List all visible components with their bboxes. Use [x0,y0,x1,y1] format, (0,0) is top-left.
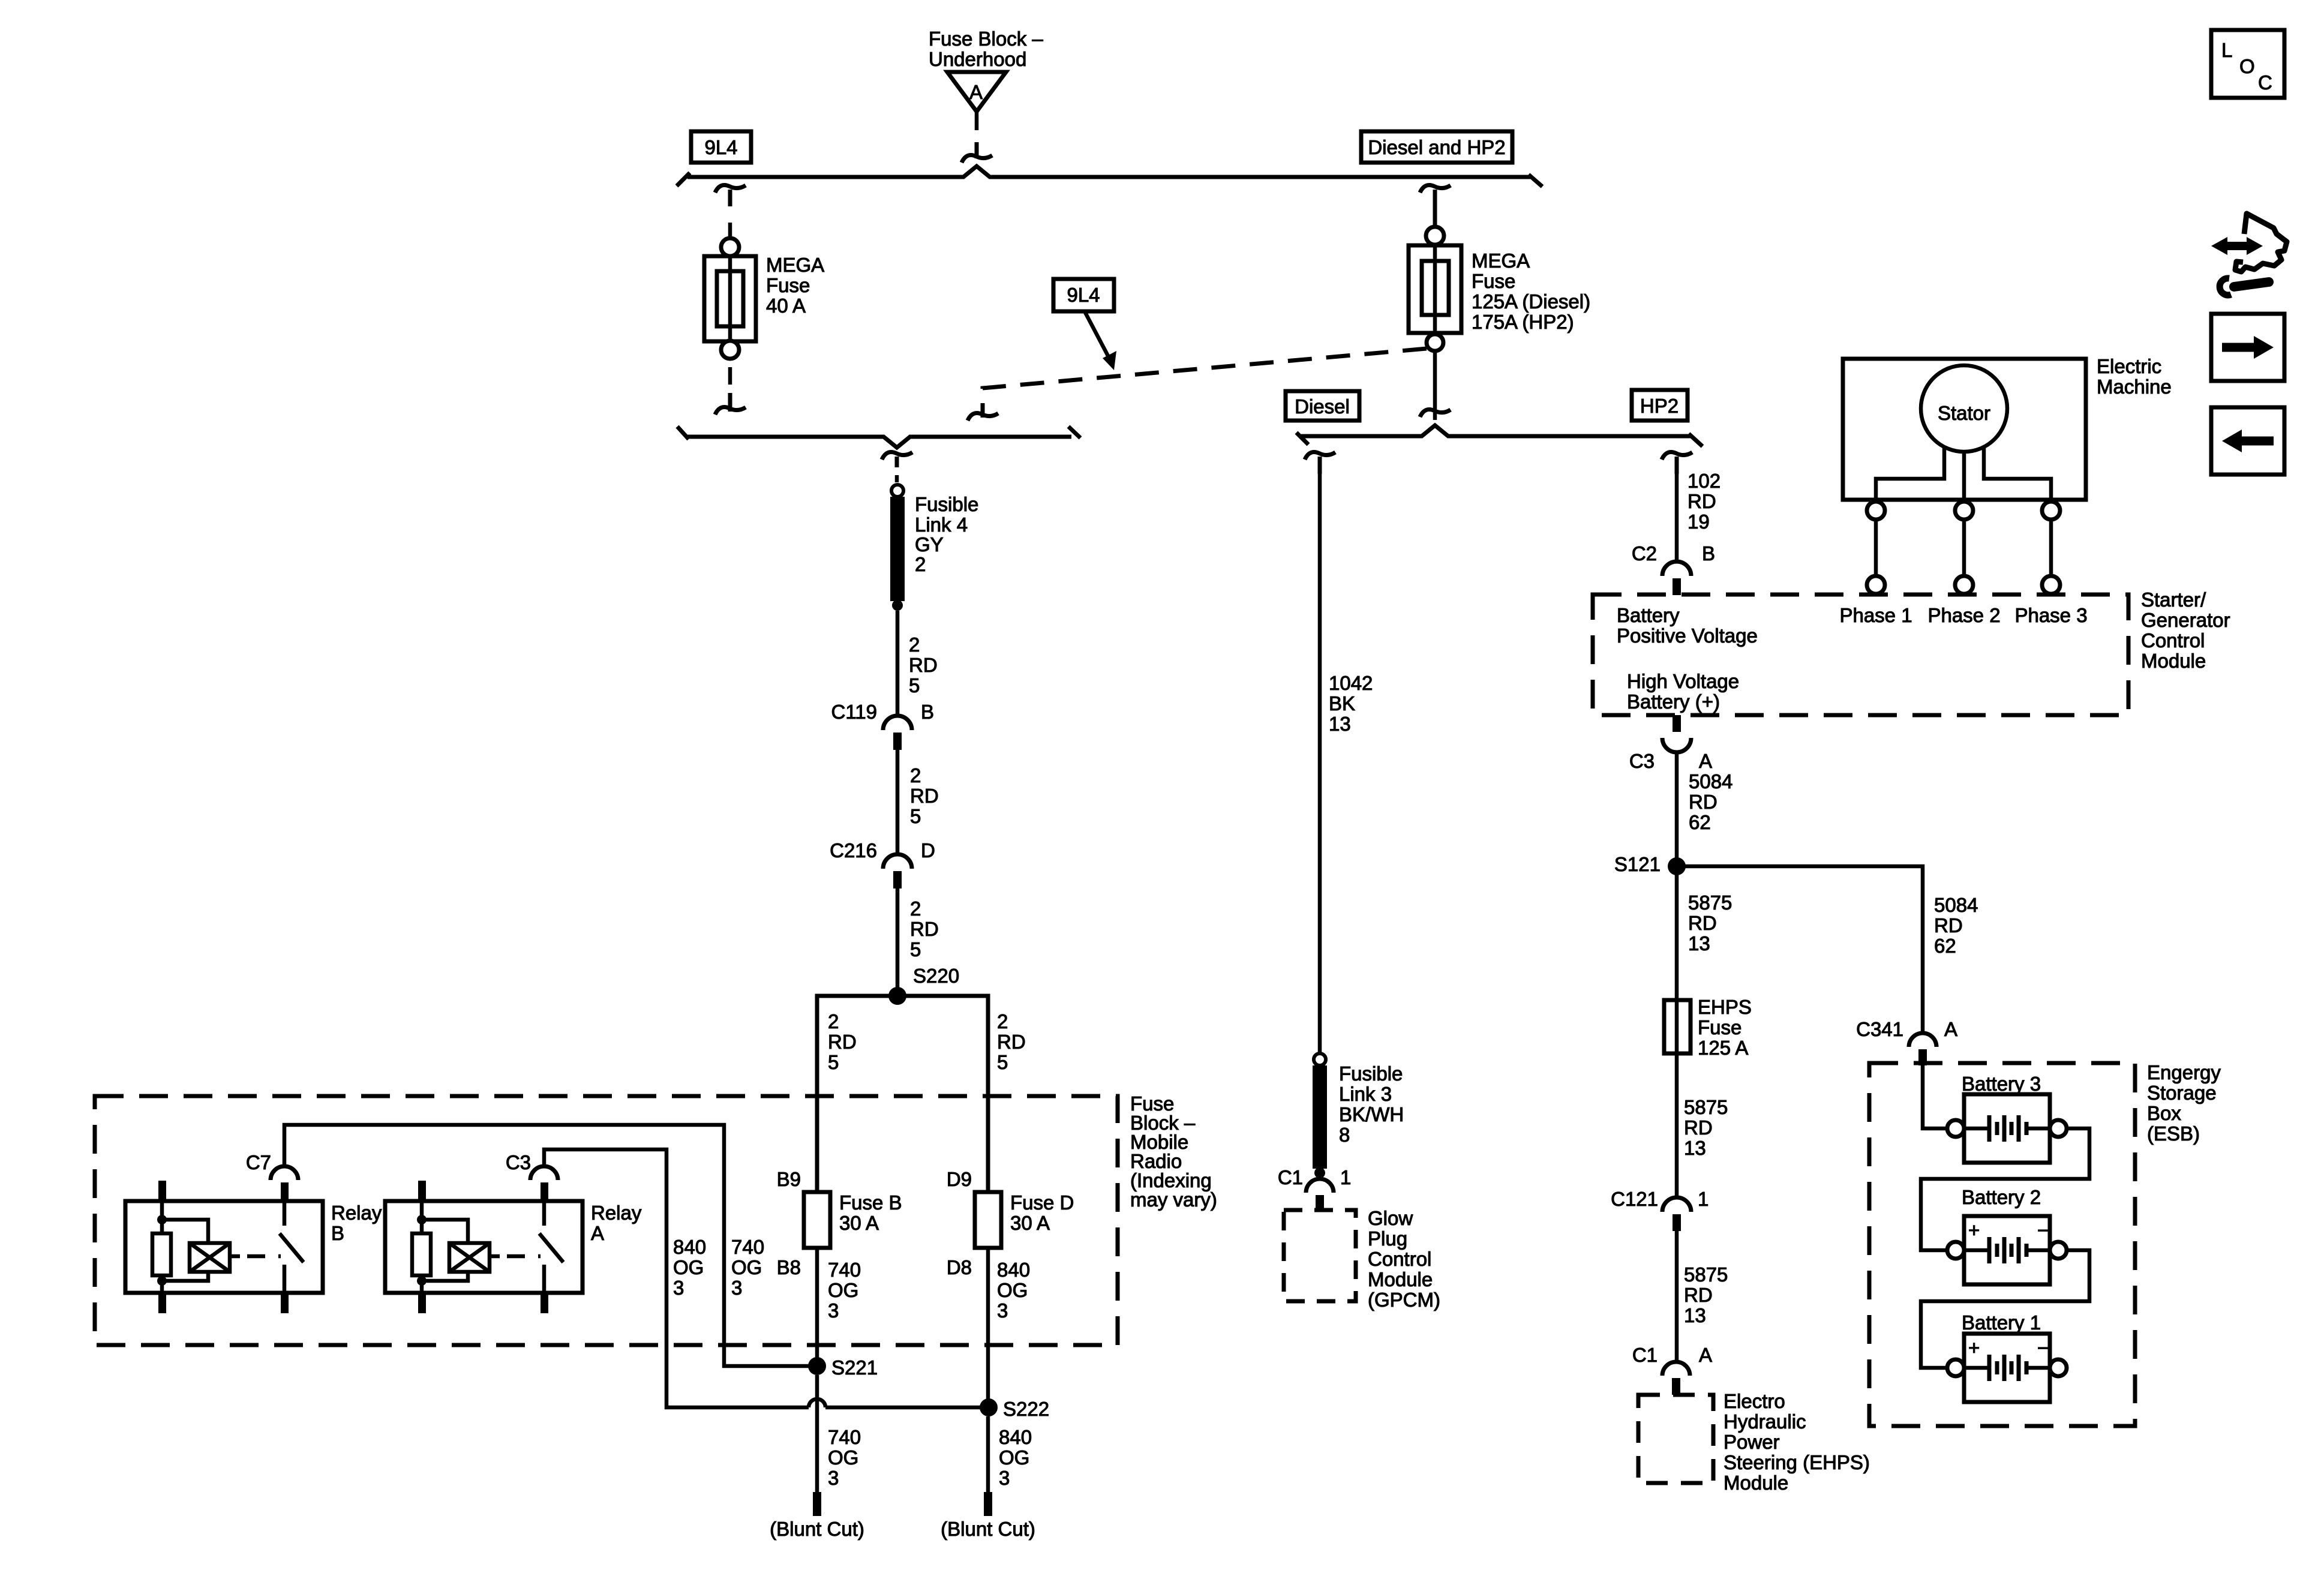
svg-text:Control: Control [2141,629,2205,652]
label Fuse Block - Mobile Radio (Indexing may vary) [1130,1092,1217,1211]
svg-text:13: 13 [1684,1137,1706,1159]
second bus right end tick [1068,427,1080,438]
svg-text:OG: OG [828,1279,858,1301]
svg-text:High Voltage: High Voltage [1627,670,1739,692]
wire break curl below bus at x2392 [1420,185,1451,227]
svg-text:RD: RD [828,1031,857,1053]
svg-text:C: C [2258,71,2272,94]
svg-text:RD: RD [1688,490,1716,512]
svg-text:1: 1 [1340,1166,1351,1188]
svg-text:30 A: 30 A [839,1212,879,1234]
relay A actuator dashed link [490,1254,541,1259]
svg-text:2: 2 [910,764,921,786]
label Glow Plug Control Module (GPCM) [1368,1207,1440,1311]
svg-text:102: 102 [1688,470,1721,492]
wire break bar+curl above bus 9L4 at x1628 [962,142,992,163]
svg-text:MEGA: MEGA [1472,250,1530,272]
fuse MEGA 125A/175A [1409,227,1461,351]
wire 2 RD 5 segment a [896,611,900,716]
wire label 840 OG 3 (fuse D) [997,1259,1030,1322]
wire label 1042 BK 13 [1329,672,1373,735]
svg-text:O: O [2239,55,2255,77]
wire from C7 to S221 [284,1125,809,1366]
wire 5875 RD 13 (a) [1675,866,1679,1000]
svg-text:+: + [1968,1219,1980,1241]
svg-text:Phase 3: Phase 3 [2014,604,2087,626]
wire dash below fuse 40A [728,367,732,385]
fusible link 4 [890,485,905,611]
label Electro Hydraulic Power Steering (EHPS) Module [1724,1390,1870,1494]
net label box 9L4 (jumper callout) [1053,279,1114,311]
svg-text:Fusible: Fusible [915,493,978,515]
relay B actuator dashed link [230,1254,281,1259]
pin label Battery Positive Voltage [1617,604,1758,647]
wire 1042 BK 13 [1318,474,1322,1054]
connector label C2 / B [1632,542,1715,565]
pin label B9 [777,1168,801,1190]
svg-text:(Blunt Cut): (Blunt Cut) [770,1518,864,1540]
svg-text:A: A [1699,750,1712,772]
blunt cut terminal (740) [770,1492,864,1540]
pin label Phase 3 [2014,604,2087,626]
relay A box [385,1201,582,1293]
svg-text:2: 2 [909,634,920,656]
connector label C3 / A [1629,750,1712,772]
svg-text:D9: D9 [947,1168,972,1190]
splice S121 [1614,853,1686,875]
blunt cut terminal (840) [941,1492,1035,1540]
svg-text:2: 2 [828,1010,839,1032]
svg-text:A: A [969,81,983,103]
wire label 840 OG 3 (C3 riser) [673,1236,706,1299]
wire label 740 OG 3 (fuse B) [828,1259,861,1322]
bus left end tick [677,173,690,186]
wire bus 9L4 second (lower-left bus) with valley notch [687,437,1071,448]
connector C119 pin B [883,716,912,750]
wire label 2 RD 5 (left branch) [828,1010,857,1073]
component box Starter/Generator Control Module (dashed) [1593,595,2128,715]
svg-text:HP2: HP2 [1640,395,1679,417]
svg-text:GY: GY [915,533,944,556]
svg-text:C3: C3 [506,1151,531,1173]
wire 840 OG 3 below fuse D [986,1248,990,1407]
value label MEGA Fuse 40 A [766,254,824,317]
wire break curl below HP2 bus at x2795 [1662,452,1692,474]
svg-text:125A (Diesel): 125A (Diesel) [1472,290,1590,313]
svg-text:62: 62 [1689,811,1711,833]
fuse B 30 A [804,1192,830,1248]
net label box Diesel and HP2 [1361,131,1512,163]
wire label 5084 RD 62 [1689,770,1733,833]
svg-text:Generator: Generator [2141,609,2230,631]
pin label Phase 1 [1839,604,1912,626]
svg-text:B: B [1702,542,1715,565]
icon box L O C [2211,30,2284,98]
svg-text:may vary): may vary) [1130,1188,1217,1211]
component box EHPS Module (dashed) [1638,1395,1713,1483]
svg-text:+: + [1968,1337,1980,1359]
svg-text:3: 3 [828,1467,839,1489]
wire label 2 RD 5 (c) [910,897,939,960]
svg-text:9L4: 9L4 [704,136,737,158]
svg-text:D8: D8 [947,1256,972,1278]
module label Starter/Generator Control Module [2141,589,2230,672]
svg-text:C1: C1 [1278,1166,1303,1188]
svg-text:A: A [1944,1018,1957,1040]
svg-text:C1: C1 [1632,1344,1658,1366]
value label Fusible Link 3 BK/WH 8 [1339,1062,1404,1146]
svg-text:BK/WH: BK/WH [1339,1103,1404,1125]
svg-text:BK: BK [1329,692,1355,715]
svg-text:5875: 5875 [1684,1263,1728,1286]
wire bus 9L4 (top bus) with junction peak [687,166,1531,177]
wire label 740 OG 3 (C7 riser) [731,1236,764,1299]
svg-text:Stator: Stator [1938,402,1990,424]
svg-text:Fuse D: Fuse D [1010,1191,1074,1214]
svg-text:Fuse B: Fuse B [839,1191,902,1214]
svg-text:3: 3 [673,1277,684,1299]
svg-text:RD: RD [1934,914,1963,936]
fuse D 30 A [975,1192,1001,1248]
wire from fuse to Diesel/HP2 bus [1433,351,1437,420]
wire label 5875 RD 13 (c) [1684,1263,1728,1326]
svg-text:3: 3 [731,1277,742,1299]
svg-text:1: 1 [1698,1188,1709,1210]
svg-text:Battery 2: Battery 2 [1962,1186,2041,1208]
wire break curl below Diesel bus at x2200 [1305,452,1335,474]
svg-text:Battery 1: Battery 1 [1962,1311,2041,1334]
svg-text:−: − [2037,1219,2049,1241]
relay A coil bottom pin [418,1293,426,1313]
wire battery 2 to battery 1 [1921,1250,2089,1368]
svg-text:S121: S121 [1614,853,1661,875]
svg-text:Module: Module [1368,1268,1433,1290]
svg-text:5: 5 [997,1051,1008,1073]
svg-text:Engergy: Engergy [2147,1061,2221,1083]
svg-text:OG: OG [731,1256,762,1278]
wire bus Diesel/HP2 with junction peak [1301,425,1691,436]
relay A coil top pin [418,1181,426,1201]
svg-text:840: 840 [997,1259,1030,1281]
wire stem from triangle A [975,112,979,130]
svg-text:S220: S220 [913,965,959,987]
value label EHPS Fuse 125 A [1698,996,1752,1059]
svg-text:5: 5 [910,938,921,960]
wire 740 OG 3 below fuse B [815,1248,819,1366]
svg-text:2: 2 [997,1010,1008,1032]
svg-text:2: 2 [910,897,921,920]
relay B switch top pin [281,1182,289,1201]
wire label 2 RD 5 (a) [909,634,938,697]
svg-text:S222: S222 [1003,1398,1049,1420]
connector C3 at relay A [506,1151,558,1180]
svg-text:RD: RD [1684,1284,1713,1306]
svg-text:8: 8 [1339,1124,1350,1146]
connector C121 pin 1 [1662,1197,1691,1231]
connector label C1 / 1 [1278,1166,1352,1188]
svg-text:740: 740 [828,1426,861,1448]
svg-text:Fuse: Fuse [1698,1016,1742,1038]
wire C341 to Battery 3 [1923,1065,1947,1128]
phase 1 terminal circles and wire [1867,502,1885,594]
pin label D9 [947,1168,972,1190]
svg-text:OG: OG [997,1279,1028,1301]
svg-text:B8: B8 [777,1256,801,1278]
svg-text:Phase 2: Phase 2 [1927,604,2000,626]
svg-text:OG: OG [999,1446,1029,1469]
svg-text:5: 5 [828,1051,839,1073]
relay B solenoid winding [162,1220,230,1281]
svg-text:Diesel: Diesel [1295,395,1350,418]
splice S222 [980,1398,1049,1420]
wire 2 RD 5 segment b [896,750,900,854]
wire break bar+curl above second bus at x1638 [968,403,998,421]
svg-text:Fuse Block –: Fuse Block – [929,28,1043,50]
svg-text:RD: RD [1689,791,1718,813]
icon box arrow right [2211,314,2284,381]
svg-text:13: 13 [1329,713,1351,735]
wire label 5875 RD 13 (a) [1688,891,1732,954]
svg-text:Battery: Battery [1617,604,1680,626]
svg-text:(Blunt Cut): (Blunt Cut) [941,1518,1035,1540]
net label box HP2 [1632,390,1688,421]
relay B switch bottom pin [281,1293,289,1313]
svg-text:C341: C341 [1856,1018,1903,1040]
relay A coil resistor [412,1201,431,1293]
svg-text:Fusible: Fusible [1339,1062,1403,1085]
relay B coil bottom pin [158,1293,166,1313]
svg-text:OG: OG [673,1256,704,1278]
relay B switch [280,1201,304,1293]
relay B label [331,1202,382,1244]
wire label 5084 RD 62 (branch) [1934,894,1978,957]
Diesel/HP2 bus right end tick [1689,434,1703,446]
connector label C341 / A [1856,1018,1957,1040]
connector C7 at relay B [246,1151,298,1180]
battery 1 [1947,1311,2067,1402]
net label box Diesel [1286,391,1359,421]
dashed jumper wire 9L4 [983,349,1427,402]
svg-text:62: 62 [1934,935,1956,957]
label Electric Machine [2097,355,2172,398]
fusible link 3 [1313,1053,1327,1178]
connector label C121 / 1 [1611,1188,1709,1210]
svg-text:5084: 5084 [1689,770,1733,792]
svg-text:Fuse: Fuse [1472,270,1515,292]
battery 2 [1947,1186,2067,1284]
icon box arrow left [2211,407,2284,475]
svg-text:5: 5 [910,805,921,827]
wire 840 OG 3 to blunt cut [986,1416,990,1492]
relay B box [125,1201,323,1293]
svg-text:740: 740 [828,1259,861,1281]
relay B coil top pin [158,1181,166,1201]
label Fuse Block - Underhood [929,28,1043,70]
svg-text:Electric: Electric [2097,355,2161,377]
svg-text:Starter/: Starter/ [2141,589,2206,611]
connector C216 pin D [883,854,912,888]
relay A label [591,1202,642,1244]
icon service info (double arrow, outline, wrench) [2211,214,2287,295]
wire branch S121 to C341 [1677,866,1923,1032]
svg-text:OG: OG [828,1446,858,1469]
wire branch S220 to fuses B and D [817,996,988,1192]
svg-text:D: D [921,839,935,861]
component box Fuse Block - Mobile Radio (dashed) [95,1096,1118,1345]
wire break curl below bus at x1217 [715,185,746,206]
svg-text:Storage: Storage [2147,1082,2217,1104]
svg-text:C216: C216 [830,839,877,861]
svg-text:Control: Control [1368,1248,1431,1270]
svg-text:RD: RD [997,1031,1026,1053]
svg-text:3: 3 [828,1299,839,1322]
svg-text:RD: RD [910,785,939,807]
svg-text:RD: RD [910,918,939,940]
component box Energy Storage Box (dashed) [1869,1063,2135,1426]
wire 5875 RD 13 (b) [1675,1053,1679,1197]
component box Electric Machine [1843,359,2086,500]
svg-text:1042: 1042 [1329,672,1373,694]
svg-text:S221: S221 [831,1356,878,1379]
svg-text:(GPCM): (GPCM) [1368,1289,1440,1311]
svg-text:Diesel and HP2: Diesel and HP2 [1368,136,1505,158]
svg-text:Module: Module [1724,1472,1788,1494]
stator phase leads [1876,447,2051,500]
svg-text:L: L [2221,39,2232,61]
svg-text:Module: Module [2141,650,2206,672]
svg-text:Glow: Glow [1368,1207,1413,1229]
value label Fusible Link 4 GY 2 [915,493,978,575]
svg-text:B: B [331,1222,344,1244]
svg-text:840: 840 [999,1426,1032,1448]
svg-text:19: 19 [1688,511,1710,533]
svg-text:Battery (+): Battery (+) [1627,691,1720,713]
svg-text:C7: C7 [246,1151,271,1173]
wire break curl below second bus at x1495 [882,452,912,482]
svg-text:2: 2 [915,553,926,575]
svg-text:Electro: Electro [1724,1390,1785,1412]
svg-text:EHPS: EHPS [1698,996,1752,1018]
svg-text:RD: RD [1688,912,1717,934]
wire dash above fuse 40A [728,223,732,239]
svg-text:30 A: 30 A [1010,1212,1050,1234]
svg-text:Underhood: Underhood [929,48,1026,70]
splice S221 [808,1356,878,1379]
relay B coil resistor [152,1201,171,1293]
svg-text:13: 13 [1688,932,1710,954]
svg-text:C3: C3 [1629,750,1655,772]
connector label C1 / A [1632,1344,1712,1366]
wire battery 3 to battery 2 [1921,1128,2089,1250]
connector label C216 / D [830,839,935,861]
component box Glow Plug Control Module (dashed) [1284,1210,1356,1301]
svg-text:(ESB): (ESB) [2147,1122,2200,1145]
svg-text:9L4: 9L4 [1067,284,1100,306]
svg-text:RD: RD [909,654,938,676]
relay A switch [539,1201,563,1293]
connector C3 pin A (module exit) [1662,715,1691,752]
connector C1 pin 1 (GPCM) [1306,1179,1334,1211]
wire 102 RD 19 [1675,474,1679,562]
svg-text:840: 840 [673,1236,706,1258]
phase 2 terminal circles and wire [1955,502,1973,594]
wire break bar+curl above Diesel/HP2 bus at x2392 [1420,410,1451,417]
pin label D8 [947,1256,972,1278]
value label MEGA Fuse 125A (Diesel) 175A (HP2) [1472,250,1590,333]
svg-text:Box: Box [2147,1102,2181,1124]
svg-text:Plug: Plug [1368,1227,1407,1250]
connector C2 pin B [1662,562,1691,595]
triangle connector A (Fuse Block Underhood) [947,72,1006,112]
svg-text:Relay: Relay [331,1202,382,1224]
svg-text:Phase 1: Phase 1 [1839,604,1912,626]
svg-text:C119: C119 [831,701,877,723]
relay A switch top pin [541,1182,548,1201]
svg-text:5084: 5084 [1934,894,1978,916]
connector C341 pin A [1909,1033,1936,1065]
wire label 740 OG 3 (blunt) [828,1426,861,1489]
net label box 9L4 (left) [691,131,751,163]
stator circle [1921,365,2007,452]
pin label Phase 2 [1927,604,2000,626]
wire label 5875 RD 13 (b) [1684,1096,1728,1159]
svg-text:B9: B9 [777,1168,801,1190]
wire 5084 RD 62 [1675,751,1679,866]
wire label 2 RD 5 (b) [910,764,939,827]
wire 2 RD 5 segment c [896,888,900,991]
wire label 102 RD 19 [1688,470,1721,533]
svg-text:Link 4: Link 4 [915,514,968,536]
svg-text:Hydraulic: Hydraulic [1724,1410,1806,1433]
svg-text:175A (HP2): 175A (HP2) [1472,311,1574,333]
svg-text:5875: 5875 [1688,891,1732,914]
bus right end tick [1529,175,1542,187]
svg-text:C121: C121 [1611,1188,1658,1210]
svg-text:Machine: Machine [2097,376,2172,398]
svg-text:5875: 5875 [1684,1096,1728,1118]
svg-text:125 A: 125 A [1698,1037,1748,1059]
leader arrow from 9L4 callout [1085,311,1116,370]
svg-text:Steering (EHPS): Steering (EHPS) [1724,1451,1870,1473]
value label Fuse D 30 A [1010,1191,1074,1234]
fuse MEGA 40 A [704,238,756,359]
wire label 2 RD 5 (right branch) [997,1010,1026,1073]
wire from C3 to S222 (with hop) [544,1149,980,1407]
wire break bar+curl above second bus at x1217 [715,393,746,415]
svg-text:A: A [1699,1344,1712,1366]
svg-text:13: 13 [1684,1304,1706,1326]
svg-text:RD: RD [1684,1116,1713,1139]
svg-text:B: B [921,701,934,723]
splice S220 [888,965,959,1005]
svg-text:Relay: Relay [591,1202,642,1224]
connector label C119 / B [831,701,934,723]
wire 5875 RD 13 (c) [1675,1231,1679,1362]
relay A solenoid winding [422,1220,490,1281]
label Engergy Storage Box (ESB) [2147,1061,2221,1145]
svg-text:740: 740 [731,1236,764,1258]
connector C1 pin A (EHPS) [1662,1362,1690,1395]
svg-text:Power: Power [1724,1431,1780,1453]
second bus left end tick [677,427,689,439]
svg-text:Link 3: Link 3 [1339,1083,1392,1105]
wire 740 OG 3 to blunt cut [815,1375,819,1492]
pin label High Voltage Battery (+) [1627,670,1739,713]
battery 3 [1947,1073,2067,1163]
svg-text:Positive Voltage: Positive Voltage [1617,625,1758,647]
svg-text:40 A: 40 A [766,295,806,317]
svg-text:Battery 3: Battery 3 [1962,1073,2041,1095]
